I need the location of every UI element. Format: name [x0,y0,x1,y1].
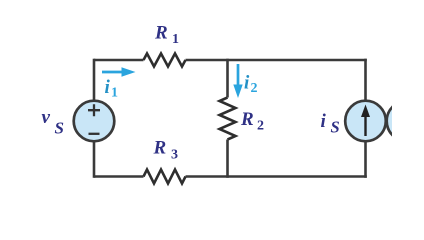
resistor R3 [144,138,186,184]
current source iS [321,101,386,142]
current arrow i1 [102,67,136,100]
svg-text:2: 2 [251,81,258,96]
svg-text:2: 2 [257,119,264,134]
wire left vertical lower [93,141,96,178]
wire top right segment [186,59,367,62]
svg-text:R: R [240,109,254,130]
svg-text:i: i [105,77,111,98]
voltage source vS [42,101,115,142]
svg-text:3: 3 [171,148,178,163]
svg-text:i: i [244,73,250,94]
svg-text:v: v [42,107,51,128]
wire left vertical upper [93,59,96,101]
wire middle vertical lower [226,140,229,178]
wire top left segment [94,59,144,62]
wire bottom right segment [186,175,367,178]
current arrow i2 [233,64,257,98]
wire bottom left segment [94,175,144,178]
resistor R1 [144,23,186,67]
wire right vertical upper [364,59,367,101]
wire middle vertical upper [226,59,229,98]
svg-text:i: i [321,111,327,132]
svg-text:S: S [55,119,64,138]
svg-text:R: R [153,138,167,159]
wire right vertical lower [364,141,367,178]
svg-text:R: R [154,23,168,44]
partial second source circle (cut off at image edge) [387,101,424,142]
svg-text:S: S [331,118,340,137]
svg-text:1: 1 [111,86,118,101]
resistor R2 [220,98,265,140]
svg-text:1: 1 [172,32,179,47]
